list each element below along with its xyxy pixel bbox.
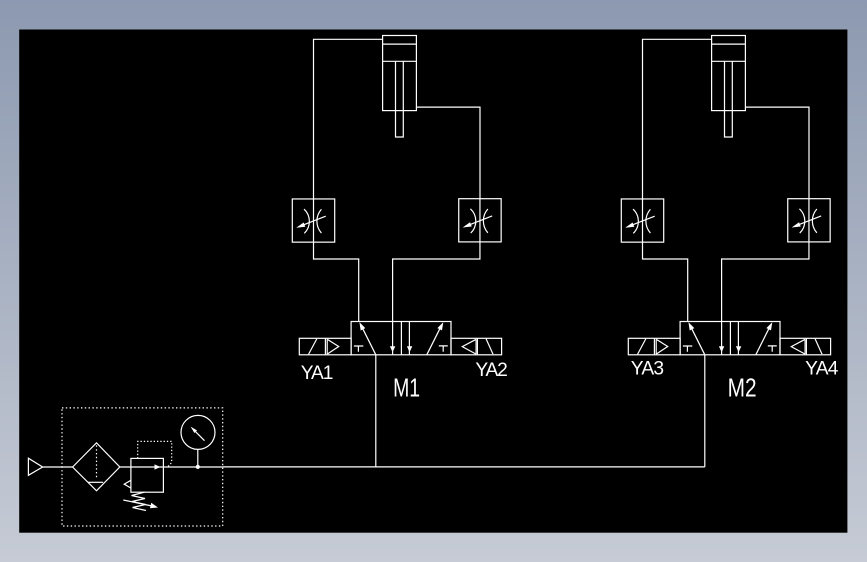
svg-text:YA3: YA3: [631, 359, 664, 380]
svg-text:YA2: YA2: [475, 360, 507, 381]
svg-text:M1: M1: [393, 375, 420, 403]
svg-text:YA4: YA4: [805, 359, 839, 380]
svg-text:YA1: YA1: [301, 363, 334, 384]
svg-text:M2: M2: [728, 375, 757, 403]
